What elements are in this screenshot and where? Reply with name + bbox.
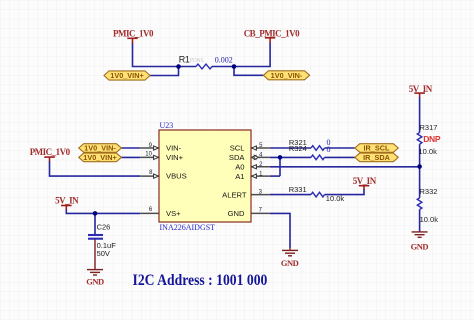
svg-text:A0: A0 [235, 163, 244, 172]
svg-text:GND: GND [86, 277, 104, 287]
svg-text:INA226AIDGST: INA226AIDGST [160, 223, 216, 232]
svg-text:5V_IN: 5V_IN [353, 176, 377, 186]
svg-text:SDA: SDA [229, 153, 246, 162]
svg-text:R331: R331 [289, 185, 307, 194]
svg-text:I2C Address : 1001 000: I2C Address : 1001 000 [133, 272, 268, 289]
svg-text:GND: GND [411, 241, 429, 251]
svg-text:A1: A1 [235, 172, 244, 181]
svg-text:VIN+: VIN+ [166, 153, 184, 162]
svg-text:PDNS: PDNS [190, 58, 205, 64]
svg-text:DNP: DNP [423, 134, 441, 144]
svg-text:0.002: 0.002 [215, 55, 233, 64]
svg-text:10.0k: 10.0k [420, 215, 439, 224]
svg-text:IR_SDA: IR_SDA [363, 153, 390, 162]
svg-text:R1: R1 [179, 54, 190, 64]
svg-text:U23: U23 [160, 121, 174, 130]
svg-text:1V0_VIN-: 1V0_VIN- [84, 144, 116, 153]
svg-text:GND: GND [281, 258, 299, 268]
svg-text:VBUS: VBUS [166, 172, 187, 181]
svg-text:1V0_VIN+: 1V0_VIN+ [110, 71, 143, 80]
svg-text:VIN-: VIN- [166, 144, 182, 153]
svg-text:VS+: VS+ [166, 209, 181, 218]
svg-text:PMIC_1V0: PMIC_1V0 [30, 147, 71, 157]
svg-text:1V0_VIN-: 1V0_VIN- [271, 71, 303, 80]
svg-text:C26: C26 [97, 222, 111, 231]
svg-text:R324: R324 [289, 144, 307, 153]
svg-text:R332: R332 [420, 187, 438, 196]
svg-text:10.0k: 10.0k [419, 147, 438, 156]
svg-text:GND: GND [228, 209, 245, 218]
svg-text:10: 10 [145, 152, 152, 158]
svg-text:SCL: SCL [230, 144, 245, 153]
svg-text:50V: 50V [97, 249, 110, 258]
svg-text:ALERT: ALERT [222, 190, 247, 199]
svg-text:5V_IN: 5V_IN [409, 84, 433, 94]
svg-text:CB_PMIC_1V0: CB_PMIC_1V0 [244, 29, 300, 39]
svg-text:PMIC_1V0: PMIC_1V0 [113, 29, 154, 39]
svg-text:IR_SCL: IR_SCL [364, 144, 390, 153]
svg-text:R317: R317 [420, 123, 438, 132]
svg-text:0: 0 [327, 145, 331, 154]
svg-text:10.0k: 10.0k [326, 194, 345, 203]
svg-text:1V0_VIN+: 1V0_VIN+ [83, 153, 116, 162]
svg-text:5V_IN: 5V_IN [55, 196, 79, 206]
